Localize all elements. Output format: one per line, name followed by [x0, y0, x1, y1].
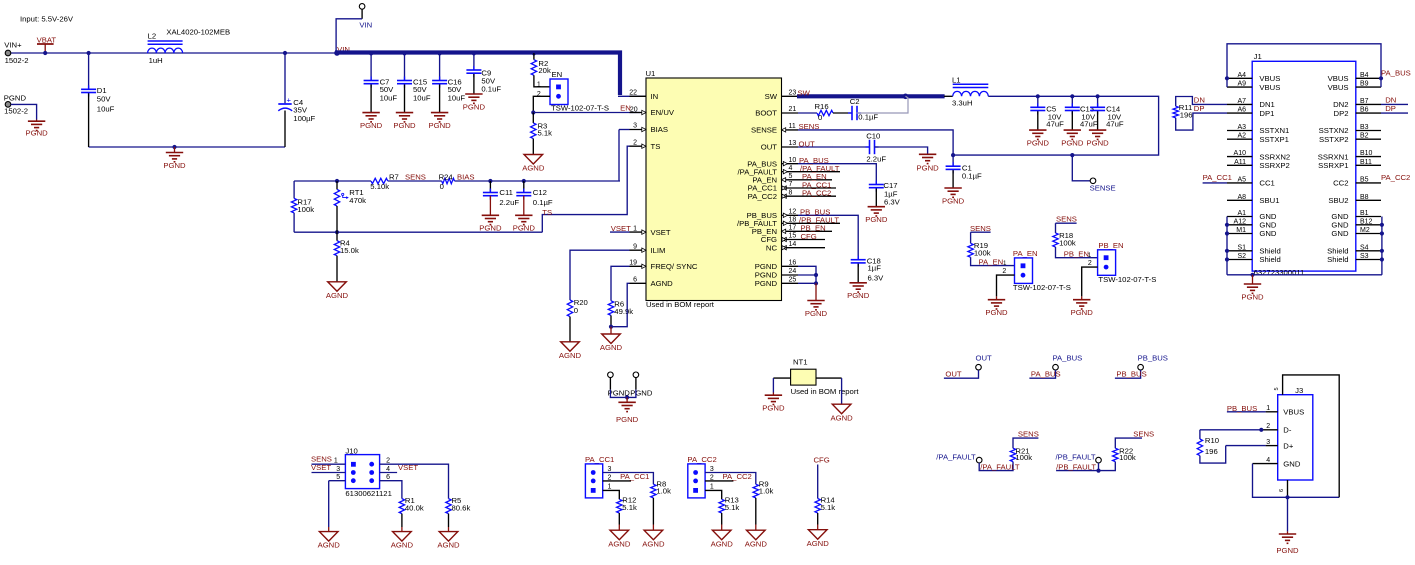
junction RT1 bottom: [335, 230, 339, 234]
svg-text:PGND: PGND: [847, 291, 870, 300]
svg-text:A10: A10: [1234, 150, 1247, 157]
J1 pin B5 CC2: [1356, 182, 1381, 184]
svg-text:SSTXP1: SSTXP1: [1259, 135, 1288, 144]
wire D- net: [1200, 429, 1261, 431]
svg-text:PGND: PGND: [755, 279, 778, 288]
svg-text:+: +: [287, 95, 292, 104]
svg-text:Shield: Shield: [1259, 247, 1280, 256]
ground AGND R4: [328, 282, 347, 292]
svg-text:PGND: PGND: [1061, 138, 1084, 147]
capacitor C4 100uF: [284, 53, 286, 103]
svg-text:PGND: PGND: [1086, 138, 1109, 147]
svg-text:Shield: Shield: [1327, 255, 1348, 264]
wire DP2 net: [1381, 112, 1408, 114]
connector J3 body: [1278, 395, 1313, 480]
J1 pin A11 SSRXP2: [1227, 164, 1252, 166]
svg-text:A7: A7: [1237, 98, 1246, 105]
terminal SENSE: [1090, 178, 1096, 184]
junction RT1 top: [335, 179, 339, 183]
svg-text:SENSE: SENSE: [1090, 184, 1116, 193]
resistor R7 5.10k: [371, 178, 388, 183]
svg-text:EN/UV: EN/UV: [651, 108, 675, 117]
svg-text:AGND: AGND: [830, 413, 853, 422]
svg-text:PGND: PGND: [1241, 292, 1264, 301]
svg-text:GND: GND: [1259, 221, 1277, 230]
J1 pin A3 SSTXN1: [1227, 130, 1252, 132]
net label PA_CC2 at pin 8: [798, 195, 836, 197]
svg-text:0.1µF: 0.1µF: [962, 171, 982, 180]
svg-text:SSRXN2: SSRXN2: [1259, 152, 1290, 161]
wire J1 GND left vertical: [1226, 217, 1228, 275]
svg-text:CC1: CC1: [1259, 179, 1274, 188]
U1 pin 24 PGND: [782, 274, 799, 276]
svg-text:PA_CC2: PA_CC2: [687, 455, 716, 464]
ground PGND C1: [944, 188, 961, 197]
svg-text:FREQ/ SYNC: FREQ/ SYNC: [651, 262, 698, 271]
U1 pin 18 /PB_FAULT: [782, 222, 799, 224]
svg-text:S2: S2: [1237, 253, 1246, 260]
resistor R13 5.1k: [719, 499, 724, 513]
svg-text:TSW-102-07-T-S: TSW-102-07-T-S: [1013, 283, 1071, 292]
U1 pin 15 CFG: [782, 239, 799, 241]
svg-text:100k: 100k: [1059, 239, 1076, 248]
connector J2 TSW-102-07-T-S EN jumper: [550, 79, 568, 105]
svg-text:1502-2: 1502-2: [5, 56, 29, 65]
svg-text:4: 4: [1266, 457, 1270, 464]
J1 pin A8 SBU1: [1227, 199, 1252, 201]
U1 pin 7 PA_CC1: [782, 187, 799, 189]
svg-text:PGND: PGND: [1071, 308, 1094, 317]
svg-text:1: 1: [710, 484, 714, 491]
terminal PGND left: [608, 372, 614, 378]
net label PA_CC1 at pin 7: [798, 187, 836, 189]
svg-text:2: 2: [1266, 423, 1270, 430]
ground PGND J3: [1287, 497, 1289, 531]
wire PB_BUS to J3: [1227, 411, 1266, 413]
wire J1 GND bottom rail: [1227, 274, 1382, 276]
J1 pin A5 CC1: [1227, 182, 1252, 184]
U1 pin 1 VSET: [630, 231, 647, 233]
terminal VIN: [359, 4, 365, 10]
svg-text:GND: GND: [1331, 221, 1349, 230]
svg-text:GND: GND: [1283, 459, 1301, 468]
ground AGND R13: [721, 525, 723, 531]
J1 pin B4 VBUS: [1356, 77, 1381, 79]
svg-text:6.3V: 6.3V: [868, 273, 885, 282]
junction C9 at VIN bus: [472, 51, 476, 55]
svg-text:B12: B12: [1360, 218, 1373, 225]
J3 pin 2 D-: [1261, 429, 1277, 431]
wire SENSE net: [798, 130, 953, 155]
U1 pin 13 OUT: [782, 146, 799, 148]
J1 pin S3 Shield: [1356, 259, 1381, 261]
capacitor C16 10uF: [439, 53, 441, 81]
svg-text:Used in BOM report: Used in BOM report: [791, 387, 860, 396]
svg-text:12: 12: [789, 209, 797, 216]
ground PGND C7: [362, 113, 379, 122]
wire U1 PGND pins: [798, 266, 816, 283]
J1 pin A4 VBUS: [1227, 77, 1252, 79]
wire J1 GND right vertical: [1381, 217, 1383, 275]
svg-text:C17: C17: [883, 181, 897, 190]
svg-text:PA_BUS: PA_BUS: [1053, 354, 1083, 363]
svg-text:16: 16: [789, 260, 797, 267]
svg-text:80.6k: 80.6k: [452, 504, 471, 513]
resistor R10 196: [1199, 430, 1201, 439]
svg-text:PA_CC2: PA_CC2: [748, 192, 777, 201]
svg-text:BIAS: BIAS: [651, 125, 669, 134]
J10 pin 1 SENS: [312, 463, 346, 465]
svg-text:21: 21: [789, 106, 797, 113]
net label PA_EN at pin 5: [798, 179, 832, 181]
wire D+ net: [1226, 445, 1266, 447]
svg-text:S3: S3: [1360, 253, 1369, 260]
svg-text:GND: GND: [1259, 229, 1277, 238]
svg-text:PA_CC2: PA_CC2: [1381, 173, 1410, 182]
wire NT1 left lead: [773, 377, 790, 379]
resistor R22 100k: [1113, 448, 1118, 461]
svg-text:A1: A1: [1237, 210, 1246, 217]
svg-text:2: 2: [608, 475, 612, 482]
svg-text:0.1µF: 0.1µF: [533, 198, 553, 207]
U1 pin 25 PGND: [782, 282, 799, 284]
svg-text:AGND: AGND: [559, 351, 582, 360]
svg-text:2: 2: [1002, 268, 1006, 275]
wire SW bus to L1: [944, 95, 953, 97]
junction PGND terminals: [625, 395, 629, 399]
svg-text:TSW-102-07-T-S: TSW-102-07-T-S: [1098, 275, 1156, 284]
terminal PGND right: [633, 372, 639, 378]
svg-text:PA_CC1: PA_CC1: [1203, 173, 1232, 182]
J1 pin M2 GND: [1356, 233, 1381, 235]
ground PGND U1: [815, 283, 817, 300]
svg-text:5.1k: 5.1k: [538, 129, 553, 138]
junction VBAT: [43, 51, 47, 55]
svg-text:R10: R10: [1205, 436, 1219, 445]
J1 pin S2 Shield: [1227, 259, 1252, 261]
junction R2 at VIN bus: [532, 51, 536, 55]
svg-text:PGND: PGND: [393, 121, 416, 130]
junction C13 at SW rail: [1070, 94, 1074, 98]
svg-text:PA_CC1: PA_CC1: [585, 455, 614, 464]
J1 pin A1 GND: [1227, 216, 1252, 218]
svg-text:DP1: DP1: [1259, 109, 1274, 118]
svg-text:10: 10: [789, 157, 797, 164]
wire C2 to SW gray link: [857, 96, 909, 113]
svg-text:40.0k: 40.0k: [405, 504, 424, 513]
J3 pin 3 D+: [1266, 445, 1278, 447]
wire VBAT input rail: [11, 52, 337, 54]
svg-text:Input: 5.5V-26V: Input: 5.5V-26V: [20, 14, 74, 23]
J1 pin B10 SSRXN1: [1356, 156, 1381, 158]
svg-text:AGND: AGND: [391, 541, 414, 550]
svg-text:B11: B11: [1360, 159, 1372, 166]
wire SENS rail: [294, 180, 371, 182]
svg-text:100µF: 100µF: [293, 114, 315, 123]
svg-text:6: 6: [1279, 489, 1285, 492]
ground PGND J1: [1252, 275, 1254, 284]
svg-text:A11: A11: [1234, 159, 1246, 166]
U1 pin 19 FREQ/ SYNC: [630, 265, 647, 267]
junction J1 VBUS A4: [1225, 76, 1229, 80]
svg-text:100k: 100k: [297, 205, 314, 214]
svg-text:SSTXP2: SSTXP2: [1319, 135, 1348, 144]
svg-text:B2: B2: [1360, 133, 1369, 140]
svg-text:BIAS: BIAS: [457, 173, 475, 182]
svg-text:PGND: PGND: [428, 121, 451, 130]
resistor R11 196: [1176, 97, 1227, 107]
PA_CC1 pin 2 net label: [603, 480, 631, 482]
junction C12 at BIAS rail: [522, 179, 526, 183]
svg-text:PA_CC2: PA_CC2: [802, 189, 831, 198]
svg-text:18: 18: [789, 217, 797, 224]
svg-text:OUT: OUT: [799, 139, 816, 148]
svg-text:5.1k: 5.1k: [725, 503, 740, 512]
svg-text:5.10k: 5.10k: [370, 182, 389, 191]
svg-text:VSET: VSET: [311, 463, 331, 472]
wire AGND pin net: [611, 283, 630, 326]
svg-text:9: 9: [633, 243, 637, 250]
J1 pin A2 SSTXP1: [1227, 138, 1252, 140]
svg-text:6.3V: 6.3V: [884, 198, 901, 207]
wire C10 to ground: [875, 147, 928, 154]
svg-text:PGND: PGND: [616, 415, 639, 424]
J1 pin B1 GND: [1356, 216, 1381, 218]
wire J1 VBUS loop: [1227, 44, 1381, 87]
svg-text:U1: U1: [646, 69, 656, 78]
svg-text:EN: EN: [552, 70, 563, 79]
svg-text:3: 3: [710, 466, 714, 473]
wire PGND terminal to ground: [11, 104, 37, 119]
svg-text:DN: DN: [1194, 95, 1205, 104]
resistor R21 100k: [1010, 448, 1015, 461]
PA_CC2 pin 3 wire: [705, 473, 756, 485]
wire VIN terminal to bus: [361, 9, 363, 18]
svg-text:B4: B4: [1360, 72, 1369, 79]
svg-text:SSRXN1: SSRXN1: [1318, 152, 1349, 161]
U1 pin 22 IN: [630, 95, 647, 97]
svg-text:10uF: 10uF: [97, 104, 115, 113]
J1 pin M1 GND: [1227, 233, 1252, 235]
junction C7 at VIN bus: [369, 51, 373, 55]
capacitor C15 10uF: [404, 53, 406, 81]
svg-text:A3: A3: [1237, 124, 1246, 131]
svg-text:196: 196: [1205, 447, 1218, 456]
junction D1 top: [87, 51, 91, 55]
svg-text:SSTXN2: SSTXN2: [1319, 126, 1349, 135]
svg-text:10uF: 10uF: [380, 94, 398, 103]
wire CFG column: [817, 465, 819, 499]
terminal OUT: [976, 364, 982, 370]
U1 pin 14 NC: [782, 247, 799, 249]
wire J10 pin5 to ground: [328, 481, 330, 527]
svg-text:B6: B6: [1360, 107, 1369, 114]
capacitor C10 2.2uF: [866, 146, 870, 148]
svg-text:VIN: VIN: [359, 21, 372, 30]
svg-text:3: 3: [1266, 439, 1270, 446]
svg-text:100k: 100k: [1015, 453, 1032, 462]
svg-text:1: 1: [1266, 405, 1270, 412]
junction J3 ground: [1285, 495, 1289, 499]
svg-text:SBU1: SBU1: [1259, 196, 1279, 205]
svg-text:SSRXP1: SSRXP1: [1318, 161, 1348, 170]
svg-text:A9: A9: [1237, 81, 1246, 88]
svg-text:PB_BUS: PB_BUS: [1138, 354, 1168, 363]
junction /PB_FAULT: [1096, 469, 1100, 473]
svg-text:PGND: PGND: [163, 161, 186, 170]
svg-text:PGND: PGND: [479, 224, 502, 233]
svg-text:11: 11: [789, 123, 796, 130]
svg-text:SSTXN1: SSTXN1: [1259, 126, 1289, 135]
resistor R14 5.1k: [815, 499, 820, 514]
U1 pin 16 PGND: [782, 265, 799, 267]
capacitor C9 0.1uF: [473, 53, 475, 70]
terminal PGND 1502-2: [5, 102, 11, 108]
wire PB_BUS net to C18: [798, 215, 858, 259]
J1 pin S1 Shield: [1227, 250, 1252, 252]
svg-text:23: 23: [789, 90, 797, 97]
IC U1 body: [646, 78, 782, 301]
junction SENSE-C1: [951, 153, 955, 157]
wire PGND terminals: [609, 378, 611, 390]
junction D-: [1259, 428, 1263, 432]
svg-text:PGND: PGND: [463, 102, 486, 111]
U1 pin 8 PA_CC2: [782, 195, 799, 197]
svg-text:49.9k: 49.9k: [614, 307, 633, 316]
capacitor C2 0.1uF: [833, 112, 852, 114]
terminal VIN+ 1502-2: [5, 50, 11, 56]
svg-text:47uF: 47uF: [1046, 120, 1064, 129]
svg-text:DP: DP: [1385, 104, 1396, 113]
capacitor C17 1uF: [875, 181, 877, 185]
J10 pin 2: [380, 464, 449, 498]
resistor R5 80.6k: [446, 499, 451, 514]
svg-text:AGND: AGND: [807, 539, 830, 548]
U1 pin 11 SENSE: [782, 129, 799, 131]
svg-text:PGND: PGND: [25, 129, 48, 138]
svg-text:PA_BUS: PA_BUS: [1031, 370, 1061, 379]
wire DN2 net: [1381, 103, 1408, 105]
resistor R3 5.1k: [532, 113, 534, 124]
svg-text:PB_EN: PB_EN: [1064, 250, 1089, 259]
svg-text:AGND: AGND: [318, 541, 341, 550]
svg-text:1: 1: [537, 81, 541, 88]
svg-text:AGND: AGND: [651, 279, 674, 288]
svg-text:3.3uH: 3.3uH: [952, 98, 973, 107]
svg-text:VBUS: VBUS: [1259, 74, 1280, 83]
capacitor D1 10uF: [88, 53, 90, 89]
junction C14 at SW rail: [1096, 94, 1100, 98]
wire J3 GND down: [1253, 464, 1340, 498]
wire SW thick bus: [797, 94, 945, 98]
svg-text:PGND: PGND: [4, 93, 27, 102]
ground PGND PB_EN jumper: [1081, 296, 1083, 299]
svg-text:/PB_FAULT: /PB_FAULT: [1056, 453, 1096, 462]
ground AGND R8: [652, 525, 654, 531]
svg-text:PGND: PGND: [755, 262, 778, 271]
svg-text:DN: DN: [1385, 95, 1396, 104]
ground PGND at input terminal: [36, 120, 38, 122]
net label PB_EN at pin 17: [798, 230, 832, 232]
svg-text:CC2: CC2: [1333, 179, 1348, 188]
svg-text:C12: C12: [533, 188, 547, 197]
PA_CC2 pin 1 wire: [705, 490, 722, 499]
svg-text:AGND: AGND: [608, 539, 631, 548]
net label /PA_FAULT at pin 4: [798, 171, 840, 173]
wire PA_EN jumper pin2 to ground: [997, 275, 1015, 296]
inductor L2 XAL4020-102MEB: [148, 48, 183, 53]
wire BIAS pin to rail: [619, 129, 630, 131]
junction J1 VBUS B4: [1379, 76, 1383, 80]
svg-text:B7: B7: [1360, 98, 1369, 105]
svg-text:1µF: 1µF: [868, 263, 882, 272]
svg-text:SENS: SENS: [405, 173, 426, 182]
wire TS pin to rail: [542, 146, 629, 232]
svg-text:PA_EN: PA_EN: [979, 257, 1004, 266]
svg-text:0: 0: [818, 113, 822, 122]
ground PGND PA_EN jumper: [996, 296, 998, 299]
svg-text:Shield: Shield: [1259, 255, 1280, 264]
resistor R6 49.9k: [608, 301, 613, 316]
svg-text:M1: M1: [1236, 227, 1246, 234]
J1 pin S4 Shield: [1356, 250, 1381, 252]
svg-text:PGND: PGND: [630, 389, 653, 398]
svg-text:2: 2: [1088, 260, 1092, 267]
junction SW boot link: [903, 94, 909, 100]
ground PGND C12: [515, 215, 532, 224]
capacitor C18 1uF: [857, 256, 859, 260]
J1 pin B6 DP2: [1356, 112, 1381, 114]
svg-text:SW: SW: [798, 89, 811, 98]
svg-text:3: 3: [336, 466, 340, 473]
J1 pin B9 VBUS: [1356, 86, 1381, 88]
J1 pin A6 DP1: [1227, 112, 1252, 114]
ground AGND R3: [524, 155, 543, 165]
svg-text:DP: DP: [1194, 104, 1205, 113]
svg-text:PB_EN: PB_EN: [1098, 241, 1123, 250]
J1 pin A9 VBUS: [1227, 86, 1252, 88]
svg-text:20k: 20k: [538, 66, 551, 75]
ground AGND R1: [401, 527, 403, 532]
J1 pin B12 GND: [1356, 224, 1381, 226]
wire PA_BUS net to C17: [798, 164, 876, 185]
svg-text:PGND: PGND: [762, 404, 785, 413]
svg-text:PGND: PGND: [985, 308, 1008, 317]
svg-text:1: 1: [608, 484, 612, 491]
ground PGND input rail: [172, 145, 176, 149]
svg-text:SENS: SENS: [1056, 215, 1077, 224]
svg-text:DN2: DN2: [1333, 100, 1348, 109]
junction C16 at VIN bus: [438, 51, 442, 55]
svg-text:B1: B1: [1360, 210, 1369, 217]
svg-text:PGND: PGND: [360, 121, 383, 130]
wire bottom rail RT1: [294, 231, 542, 233]
svg-text:4: 4: [386, 466, 390, 473]
wire NT1 right lead: [816, 377, 842, 379]
connector J1 body: [1252, 61, 1356, 271]
wire output rail: [953, 96, 1159, 155]
svg-text:SENS: SENS: [799, 122, 820, 131]
svg-text:J10: J10: [345, 447, 357, 456]
junction PGND 24: [814, 273, 818, 277]
svg-text:PA_EN: PA_EN: [1013, 249, 1038, 258]
wire PA_CC1 to J1: [1203, 182, 1227, 184]
svg-text:15: 15: [789, 233, 797, 240]
ground AGND R14: [817, 525, 819, 530]
junction VIN bus start: [334, 50, 340, 56]
net label /PB_FAULT at pin 18: [798, 222, 840, 224]
J10 pin 6: [380, 481, 402, 499]
